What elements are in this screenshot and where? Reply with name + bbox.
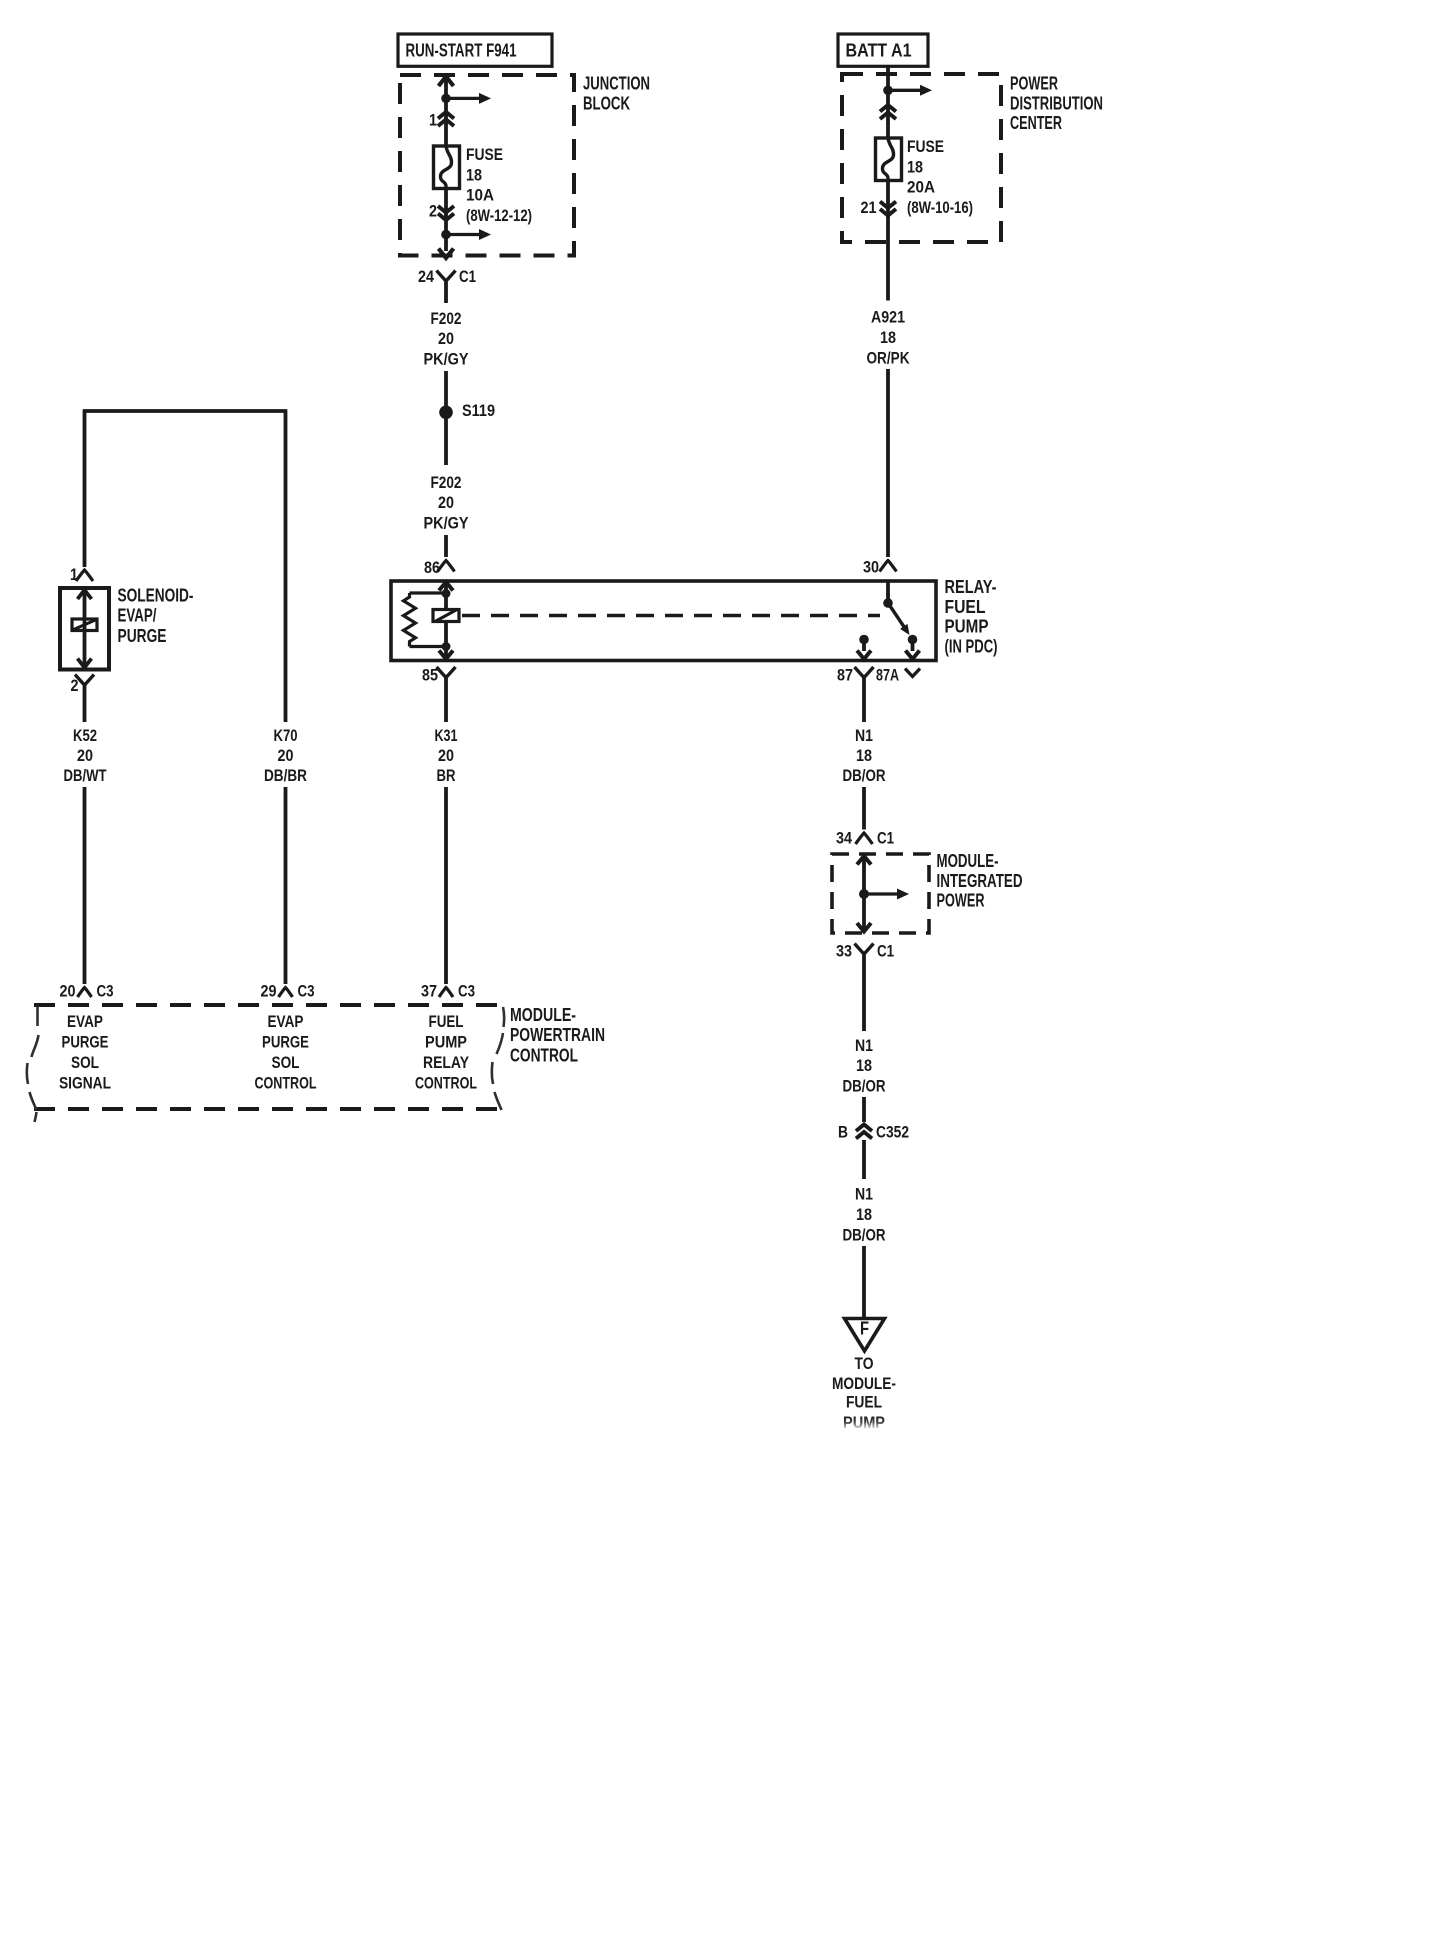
arrow down inside solenoid (78, 659, 92, 668)
wire relay 85 drop (444, 695, 448, 722)
pin 20 C3 connector (78, 988, 92, 998)
svg-text:FUSE: FUSE (907, 137, 944, 156)
arrow up into junction block top (439, 77, 454, 87)
svg-text:37: 37 (421, 981, 437, 1000)
svg-text:RELAY: RELAY (423, 1053, 470, 1072)
fuse F18 element (440, 146, 451, 189)
svg-text:SOLENOID-: SOLENOID- (118, 586, 194, 606)
arrow up inside solenoid (78, 590, 92, 599)
node MIP dot (859, 889, 869, 899)
wire K31 to PCM (444, 787, 448, 984)
svg-text:FUEL: FUEL (429, 1012, 464, 1031)
pin 30 connector (880, 561, 897, 572)
junction block dashed box (400, 75, 574, 256)
arrow feed branch right (upper) (446, 97, 482, 100)
svg-text:POWER: POWER (937, 891, 985, 911)
fuse F18 PDC (rect) (876, 138, 902, 181)
svg-text:CONTROL: CONTROL (510, 1045, 578, 1065)
arrow down at relay pin 87 (857, 651, 871, 660)
wire solenoid feed (horizontal + right drop) (83, 409, 287, 413)
svg-text:29: 29 (261, 981, 277, 1000)
relay coil wire (444, 582, 448, 659)
svg-text:FUSE: FUSE (466, 145, 503, 164)
module-powertrain control dashed box (34, 1003, 503, 1007)
svg-text:2: 2 (429, 201, 437, 220)
svg-text:SOL: SOL (71, 1053, 99, 1072)
wire relay pin 30 into switch (886, 582, 890, 600)
svg-text:20: 20 (438, 746, 454, 765)
svg-text:PK/GY: PK/GY (424, 350, 470, 369)
svg-text:JUNCTION: JUNCTION (583, 74, 650, 94)
svg-text:BR: BR (437, 766, 456, 785)
svg-text:CONTROL: CONTROL (415, 1073, 477, 1092)
svg-text:PUMP: PUMP (425, 1032, 467, 1051)
svg-text:F202: F202 (431, 309, 462, 328)
svg-text:PK/GY: PK/GY (424, 513, 470, 532)
svg-text:18: 18 (856, 1205, 872, 1224)
svg-text:18: 18 (466, 165, 482, 184)
svg-text:PUMP: PUMP (843, 1413, 885, 1432)
pin 87 connector (855, 667, 874, 678)
connector B C352 (856, 1125, 872, 1132)
pin 1 connector (solenoid) (76, 570, 93, 581)
arrow down at relay pin 87A (906, 651, 920, 660)
pin 21 connector (880, 202, 896, 209)
connector 24 C1 (437, 271, 456, 282)
svg-text:POWER: POWER (1010, 74, 1058, 94)
svg-text:1: 1 (70, 565, 78, 584)
svg-text:S119: S119 (462, 401, 495, 420)
solenoid internal wire (83, 590, 87, 668)
svg-text:F202: F202 (431, 473, 462, 492)
svg-text:20A: 20A (907, 178, 935, 197)
svg-text:86: 86 (424, 558, 440, 577)
svg-text:DISTRIBUTION: DISTRIBUTION (1010, 93, 1103, 113)
svg-text:PURGE: PURGE (62, 1032, 109, 1051)
node relay contact 87A dot (908, 635, 918, 645)
wire above splice (444, 371, 448, 406)
svg-text:DB/OR: DB/OR (843, 1225, 886, 1244)
wire contact 87 stub (862, 640, 866, 652)
svg-text:FUEL: FUEL (846, 1392, 882, 1411)
feed label box RUN-START F941 (398, 34, 552, 66)
svg-text:POWERTRAIN: POWERTRAIN (510, 1025, 605, 1045)
pin 1 connector (junction block) (438, 112, 454, 119)
svg-text:C1: C1 (459, 267, 476, 286)
arrow up inside MIP (857, 856, 871, 865)
svg-text:87: 87 (837, 665, 853, 684)
svg-text:N1: N1 (855, 726, 873, 745)
svg-text:C3: C3 (298, 981, 315, 1000)
svg-text:SOL: SOL (272, 1053, 300, 1072)
svg-text:PUMP: PUMP (945, 617, 989, 637)
wire relay 87 drop (862, 695, 866, 722)
pin 29 C3 connector (279, 988, 293, 998)
svg-text:C1: C1 (877, 828, 894, 847)
feed label box BATT A1 (838, 34, 928, 66)
pin 37 C3 connector (439, 988, 453, 998)
svg-text:MODULE-: MODULE- (937, 851, 999, 871)
svg-text:DB/OR: DB/OR (843, 766, 886, 785)
svg-text:OR/PK: OR/PK (867, 348, 911, 367)
splice S119 (439, 406, 453, 420)
svg-text:33: 33 (836, 941, 852, 960)
svg-text:(IN PDC): (IN PDC) (945, 637, 998, 657)
svg-text:24: 24 (418, 267, 434, 286)
svg-text:C3: C3 (458, 981, 475, 1000)
svg-text:B: B (838, 1122, 848, 1141)
arrow PDC branch right (888, 89, 923, 92)
svg-text:87A: 87A (876, 665, 899, 684)
svg-text:K52: K52 (73, 726, 97, 745)
wire solenoid feed left drop (83, 410, 87, 568)
svg-text:K70: K70 (274, 726, 298, 745)
svg-text:RUN-START F941: RUN-START F941 (406, 41, 517, 61)
connector chevrons (PDC feed) (880, 105, 896, 112)
arrow MIP branch right (864, 892, 900, 895)
wire K52 to PCM (83, 787, 87, 984)
arrow feed branch right (lower) (446, 233, 482, 236)
arrow down inside MIP (857, 923, 871, 932)
svg-text:18: 18 (856, 1056, 872, 1075)
svg-text:RELAY-: RELAY- (945, 577, 997, 597)
node relay contact 87 dot (859, 635, 869, 645)
svg-text:EVAP: EVAP (67, 1012, 103, 1031)
wire label to C352 (862, 1097, 866, 1122)
svg-text:2: 2 (71, 676, 79, 695)
svg-text:(8W-12-12): (8W-12-12) (466, 206, 532, 225)
svg-text:N1: N1 (855, 1036, 873, 1055)
svg-text:18: 18 (907, 157, 923, 176)
solenoid EVAP/PURGE box (60, 588, 109, 670)
svg-text:CENTER: CENTER (1010, 113, 1062, 133)
svg-text:(8W-10-16): (8W-10-16) (907, 198, 973, 217)
wire C352 to label (862, 1140, 866, 1179)
wire fuse to pin 2 (444, 189, 448, 252)
node PDC dot (883, 86, 893, 96)
svg-text:30: 30 (863, 557, 879, 576)
svg-text:1: 1 (429, 110, 437, 129)
svg-text:CONTROL: CONTROL (255, 1073, 317, 1092)
wire PDC vertical (886, 66, 890, 138)
svg-text:BATT A1: BATT A1 (846, 41, 912, 61)
wire solenoid to label (83, 695, 87, 722)
svg-text:C3: C3 (97, 981, 114, 1000)
wire 33 to label (862, 970, 866, 1031)
svg-text:DB/OR: DB/OR (843, 1077, 886, 1096)
svg-text:FUEL: FUEL (945, 597, 986, 617)
wire A921 to relay pin 30 (886, 369, 890, 557)
power distribution center dashed box (842, 74, 1001, 242)
arrow down out of junction block (439, 249, 454, 259)
svg-text:SIGNAL: SIGNAL (59, 1073, 111, 1092)
pin 2 connector (solenoid) (75, 675, 94, 686)
relay switch blade (888, 603, 908, 632)
svg-text:F: F (860, 1319, 869, 1339)
svg-text:85: 85 (422, 665, 438, 684)
off-page connector F triangle (845, 1319, 885, 1352)
svg-text:MODULE-: MODULE- (510, 1005, 576, 1025)
node relay coil top dot (442, 589, 451, 598)
pin 33 C1 connector (855, 944, 874, 955)
arrow up at relay pin 86 (439, 582, 453, 591)
svg-text:DB/WT: DB/WT (64, 766, 107, 785)
pin 86 connector (438, 561, 455, 572)
wire contact 87A stub (911, 640, 915, 652)
solenoid coil symbol (72, 619, 97, 631)
node junction-block upper dot (441, 94, 451, 104)
svg-text:A921: A921 (871, 308, 905, 327)
relay suppression resistor (410, 591, 447, 594)
svg-text:EVAP/: EVAP/ (118, 606, 157, 626)
svg-text:TO: TO (855, 1354, 874, 1373)
relay mechanical link (dashed) (462, 614, 880, 618)
svg-text:20: 20 (60, 981, 76, 1000)
wire junction-block vertical (444, 76, 448, 146)
svg-text:20: 20 (278, 746, 294, 765)
svg-text:EVAP: EVAP (268, 1012, 304, 1031)
wire K70 to PCM (284, 787, 288, 984)
node relay coil bottom dot (442, 642, 451, 651)
svg-text:21: 21 (861, 198, 877, 217)
svg-text:34: 34 (836, 828, 852, 847)
svg-text:18: 18 (880, 328, 896, 347)
fuse F18 junction block (rect) (434, 146, 460, 189)
svg-text:N1: N1 (855, 1185, 873, 1204)
wire to off-page connector F (862, 1246, 866, 1318)
svg-text:20: 20 (77, 746, 93, 765)
svg-text:C352: C352 (876, 1122, 909, 1141)
svg-text:PURGE: PURGE (118, 626, 167, 646)
svg-text:C1: C1 (877, 941, 894, 960)
wire below splice (444, 419, 448, 465)
svg-text:DB/BR: DB/BR (264, 766, 307, 785)
fuse F18 PDC element (882, 138, 893, 181)
svg-text:18: 18 (856, 746, 872, 765)
svg-text:10A: 10A (466, 186, 494, 205)
pin 34 C1 connector (856, 833, 873, 844)
node junction-block lower dot (441, 230, 451, 240)
pin 2 connector (junction block) (438, 206, 454, 213)
wire to relay pin 86 (444, 535, 448, 557)
svg-text:20: 20 (438, 493, 454, 512)
relay coil symbol (433, 610, 459, 622)
node relay switch common dot (883, 598, 893, 608)
arrow down at relay pin 85 (439, 651, 453, 660)
svg-text:INTEGRATED: INTEGRATED (937, 871, 1023, 891)
svg-text:PURGE: PURGE (262, 1032, 309, 1051)
relay box (391, 581, 936, 661)
module-integrated power dashed box (832, 854, 929, 933)
svg-text:MODULE-: MODULE- (832, 1374, 896, 1393)
pin 85 connector (437, 667, 456, 678)
wire fuse to PDC bottom (886, 181, 890, 301)
MIP internal wire (862, 856, 866, 933)
svg-text:20: 20 (438, 329, 454, 348)
svg-text:BLOCK: BLOCK (583, 93, 630, 113)
wire N1 to MIP (862, 787, 866, 830)
svg-text:K31: K31 (435, 726, 458, 745)
